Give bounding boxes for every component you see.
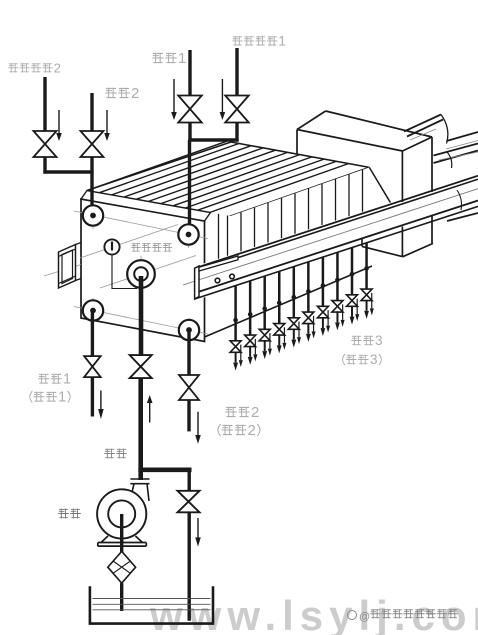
label compressed gas 2 — [8, 63, 52, 72]
beam mounting bar — [199, 256, 238, 271]
label feed liquid — [104, 449, 127, 459]
valve filtrate1 — [84, 356, 101, 377]
label compressed gas 1 — [232, 36, 277, 46]
feed pipe from feed port — [139, 274, 144, 356]
port center ticks — [92, 203, 94, 229]
centerline bottom ports — [74, 307, 208, 335]
beam tube end arc — [457, 190, 462, 210]
head top band — [81, 191, 211, 222]
pressure gauge line — [112, 254, 137, 289]
pump base — [101, 536, 108, 543]
svg-text:2: 2 — [251, 404, 259, 421]
pipe wash 2 — [90, 93, 93, 131]
box lower-left below beam — [361, 239, 363, 247]
drain unit 5 — [293, 267, 296, 318]
plate stack top face — [87, 142, 369, 213]
svg-text:2: 2 — [247, 422, 255, 439]
label (wash 2) — [218, 424, 246, 436]
port top-left — [83, 205, 103, 225]
drain unit 10 — [365, 243, 368, 289]
left lug bracket — [59, 245, 76, 289]
centerline feed depth — [100, 256, 196, 289]
valve return — [178, 491, 200, 512]
svg-text:1: 1 — [178, 50, 186, 67]
pipe to top-right port — [188, 140, 191, 235]
arrow return — [197, 518, 199, 537]
fixed head plate face — [81, 199, 205, 342]
arrow wash2 — [106, 110, 108, 133]
arrow wash1 — [173, 79, 175, 112]
movable head box — [297, 111, 432, 182]
arrow gas2 — [58, 110, 60, 133]
label wash 2 — [105, 88, 130, 99]
stack top back edge — [231, 142, 369, 167]
frame legs behind stack — [345, 195, 347, 210]
arrow feed up — [149, 403, 151, 423]
svg-text:2: 2 — [54, 60, 61, 75]
plate stack side face — [205, 167, 373, 337]
feed tee horizontal — [138, 467, 191, 472]
pipe filtrate 2 — [187, 330, 190, 376]
svg-text:3: 3 — [375, 333, 383, 348]
pipe wash 1 — [188, 50, 191, 96]
label filtrate 2 — [225, 407, 250, 418]
valve wash2 — [81, 131, 104, 157]
feed line lower — [138, 378, 143, 480]
arrow filtrate2 — [197, 412, 199, 435]
stack boundary edge F — [205, 167, 370, 225]
pipe compressed gas 2 — [43, 77, 46, 131]
svg-text:@: @ — [359, 611, 370, 623]
centerline gauge depth — [80, 225, 178, 259]
drain unit 9 — [351, 248, 354, 295]
drain unit 2 — [249, 281, 252, 335]
svg-text:1: 1 — [63, 372, 71, 388]
label filtrate 3 — [351, 336, 374, 346]
label (wash 1) — [30, 391, 57, 403]
drain unit 1 — [234, 286, 237, 341]
svg-text:1: 1 — [278, 33, 286, 48]
tie rod tube top right — [404, 115, 441, 132]
label filtrate 1 — [38, 374, 62, 384]
beam bolt 1 — [215, 278, 220, 283]
drain unit 6 — [307, 262, 310, 312]
port bottom-right — [179, 320, 199, 340]
port top-right — [178, 224, 198, 244]
feed line valve — [130, 355, 152, 378]
drain unit 4 — [278, 271, 281, 323]
credit line — [348, 611, 357, 620]
stack top left depth edge — [87, 142, 231, 191]
label wash 1 — [152, 53, 177, 64]
arrow gas1 — [221, 79, 223, 112]
valve filtrate2 — [179, 375, 199, 400]
header gas2/wash2 — [43, 170, 93, 173]
feed port — [127, 260, 155, 288]
svg-text:2: 2 — [131, 85, 139, 102]
label (wash 3 — [343, 354, 369, 365]
movable head box right side — [403, 137, 433, 151]
water level lines — [93, 598, 211, 600]
drain unit 8 — [336, 252, 339, 300]
suction filter — [108, 551, 136, 583]
pump suction pipe — [120, 514, 123, 552]
svg-text:1: 1 — [58, 390, 66, 406]
stack end to box corner edge — [369, 167, 403, 224]
valve gas1 — [225, 96, 249, 123]
pipe compressed gas 1 — [235, 48, 238, 96]
arrow filtrate1 — [100, 391, 102, 410]
pump discharge flange — [130, 478, 149, 480]
pressure gauge — [104, 239, 119, 254]
return pipe upper — [187, 468, 190, 492]
label pressure indicate — [131, 243, 172, 252]
valve gas2 — [34, 131, 57, 157]
beam bolt 2 — [230, 274, 235, 279]
side beam — [195, 174, 478, 301]
centerline head axis — [44, 265, 81, 277]
drain unit 3 — [263, 276, 266, 329]
stack bottom silhouette edge — [205, 266, 373, 337]
valve wash1 — [178, 96, 202, 123]
drain unit 7 — [322, 257, 325, 306]
centerline top ports — [74, 211, 208, 239]
header gas1/wash1 — [188, 138, 238, 141]
label feed pump — [58, 509, 81, 519]
lower rail below beam right — [447, 213, 478, 221]
upper side rail right — [447, 132, 478, 141]
svg-text:3: 3 — [370, 352, 378, 367]
tank — [90, 586, 213, 623]
beam left end cap — [195, 266, 199, 299]
pipe filtrate 1 — [91, 311, 94, 357]
port bottom-left — [83, 300, 103, 320]
feed pump — [97, 489, 146, 538]
